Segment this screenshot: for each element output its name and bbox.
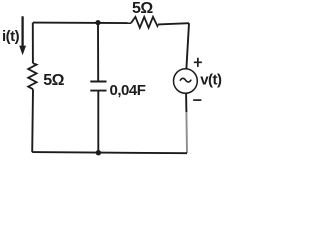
current arrow i(t) head [19,46,26,56]
svg-text:5Ω: 5Ω [43,72,64,89]
wire left upper [32,23,34,64]
node junction dot bottom [96,150,101,155]
svg-text:0,04F: 0,04F [110,82,146,99]
node junction dot top [95,20,100,25]
plus polarity mark [194,58,202,67]
wire right lower faded part [185,112,188,153]
wire middle upper [97,23,99,82]
svg-text:5Ω: 5Ω [132,0,153,17]
wire right lower [185,94,187,113]
svg-text:v(t): v(t) [200,72,222,89]
wire left lower [31,89,34,152]
wire top-left segment [33,22,131,25]
svg-text:i(t): i(t) [2,28,20,45]
voltage source circle [174,69,198,94]
wire bottom [32,152,187,153]
minus polarity mark [193,99,201,101]
wire middle lower [97,91,99,153]
capacitor plates [90,82,106,91]
wire right upper [186,23,189,68]
wire top-right segment [158,23,189,24]
resistor 5ohm left zigzag [28,63,36,89]
resistor 5ohm top zigzag [131,17,158,28]
current arrow i(t) shaft [21,16,23,47]
sine symbol inside source [180,78,191,82]
